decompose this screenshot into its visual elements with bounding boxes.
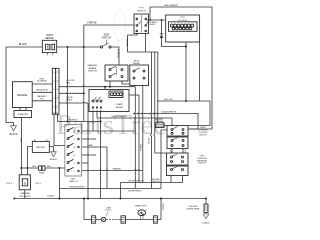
svg-text:BLACK: BLACK — [50, 158, 58, 161]
wire strip to relay y86.7 — [59, 85, 135, 88]
wire key switch y163 — [82, 162, 88, 164]
svg-text:WHITE: WHITE — [149, 24, 156, 26]
wire strip y93.3 — [59, 92, 84, 94]
svg-text:PURPLE: PURPLE — [87, 22, 97, 25]
node x150 y20 — [149, 19, 151, 21]
svg-text:PTO: PTO — [180, 17, 185, 19]
svg-text:MOW: MOW — [134, 60, 139, 62]
wire battery negative to ground — [49, 147, 53, 152]
svg-text:BROWN: BROWN — [125, 39, 127, 47]
wire parking brake bottom right — [122, 81, 130, 84]
wire key switch y139 — [82, 138, 96, 140]
wire orange y170.5 — [82, 169, 143, 172]
headlight — [135, 205, 147, 220]
battery — [32, 140, 49, 153]
wire bundle x154.8 — [154, 52, 167, 153]
svg-text:METER: METER — [45, 37, 54, 40]
wire black/white y113.5 — [133, 114, 198, 130]
svg-text:RED: RED — [47, 166, 52, 168]
pto switch — [134, 8, 149, 34]
node at x83.8 y47 — [83, 46, 85, 48]
wire purple top horizontal — [84, 24, 134, 26]
wire hour meter to seat switch — [57, 46, 101, 48]
wire key switch y131 — [82, 130, 136, 132]
inline connector box — [156, 123, 167, 128]
svg-text:BLACK/WHITE: BLACK/WHITE — [112, 115, 127, 118]
wire battery positive down — [27, 147, 32, 169]
parking brake switch — [88, 64, 128, 81]
svg-text:BLACK: BLACK — [202, 221, 210, 224]
svg-text:STARTER: STARTER — [20, 192, 30, 195]
svg-text:BLACK: BLACK — [10, 133, 18, 136]
node x27.4 y168 — [26, 167, 28, 169]
wire clutch bottom tap — [185, 42, 187, 101]
svg-text:YELLOW: YELLOW — [155, 121, 163, 123]
wire steering left bus x161 — [161, 130, 167, 189]
svg-text:SOLENOID: SOLENOID — [37, 81, 47, 83]
wire bundle x135.3 — [133, 87, 136, 189]
svg-text:SWITCH: SWITCH — [137, 10, 146, 12]
svg-text:SWITCH: SWITCH — [88, 71, 97, 73]
wire engine magneto kill — [32, 100, 52, 102]
wire key switch y147 + 1 AMP — [82, 146, 107, 148]
wire relay bottom pin x93 — [92, 110, 94, 131]
lamp row feed left — [84, 199, 92, 220]
wire strip bottom right pin — [56, 114, 58, 121]
svg-text:HEADLIGHT: HEADLIGHT — [135, 205, 147, 208]
svg-text:START: START — [116, 103, 124, 106]
seat switch S1 — [100, 34, 111, 49]
wire to light fuse — [96, 219, 102, 221]
svg-text:BROWN: BROWN — [147, 138, 149, 145]
ground right assembly — [202, 199, 210, 225]
svg-text:BROWN YELLOW: BROWN YELLOW — [129, 181, 144, 183]
node rail 14.4 — [13, 198, 15, 200]
wire lamp row right up to rail — [157, 199, 161, 220]
wire bundle x142.8 — [141, 86, 144, 183]
wire vertical x100.6 — [100, 110, 102, 198]
light coil lamp — [101, 207, 112, 221]
svg-text:RED: RED — [19, 138, 21, 143]
svg-text:COIL 1: COIL 1 — [35, 183, 41, 185]
node x100.6 y121.5 — [100, 121, 102, 123]
wire bundle x151.5 — [150, 52, 153, 189]
wire x120.5 down — [120, 183, 122, 199]
svg-text:RED: RED — [66, 82, 71, 84]
svg-text:RELAY: RELAY — [116, 106, 124, 109]
wire purple y121.5 — [57, 121, 100, 123]
wire to headlight — [126, 219, 154, 221]
svg-text:PTO: PTO — [139, 8, 144, 10]
wire pto switch bottom into bundle — [128, 33, 158, 52]
wire dashes to connector 2 — [106, 219, 121, 221]
svg-text:WHT: WHT — [184, 149, 186, 153]
svg-text:BLACK: BLACK — [47, 195, 55, 198]
wire strip y103 — [59, 101, 88, 104]
svg-text:SWITCH: SWITCH — [198, 163, 206, 165]
left rail wire — [6, 47, 14, 126]
connector 3 — [153, 216, 157, 223]
svg-text:(COIL): (COIL) — [106, 210, 112, 212]
node rail 59.4 — [58, 198, 60, 200]
svg-text:PARKING: PARKING — [88, 64, 98, 67]
svg-text:REGULATOR: REGULATOR — [36, 89, 48, 92]
svg-text:SWITCH: SWITCH — [199, 134, 207, 136]
svg-text:BRAKE: BRAKE — [89, 67, 97, 70]
right steering switch — [167, 126, 188, 149]
diode D1 — [160, 20, 186, 47]
wire red/green top — [150, 7, 212, 129]
wire x150 down to pto out — [149, 7, 151, 20]
wire vertical x88 — [87, 103, 89, 199]
svg-text:S: S — [24, 182, 26, 186]
connector strip J1 — [52, 68, 59, 114]
ground (left rail) — [10, 126, 18, 136]
hour meter HM1 — [42, 34, 56, 55]
key switch K1 — [65, 125, 82, 184]
svg-text:BLACK: BLACK — [162, 204, 165, 211]
label left steering switch — [197, 156, 208, 165]
wire seat switch to parking brake box — [111, 47, 119, 65]
node x161.5 y20 — [161, 19, 163, 21]
svg-text:BROWN WHITE: BROWN WHITE — [70, 187, 85, 189]
wire engine fuel solenoid — [32, 83, 52, 85]
svg-text:SWITCH: SWITCH — [102, 37, 112, 40]
node x59.4 y168 — [58, 167, 60, 169]
wire clutch right pin down — [199, 42, 201, 101]
node rail 120.5 — [120, 198, 122, 200]
svg-text:STARTER: STARTER — [18, 113, 28, 116]
svg-text:YELLOW: YELLOW — [152, 181, 160, 183]
wire vertical x107 — [106, 147, 108, 189]
starter box — [14, 108, 32, 118]
node x186 y46.5 — [185, 46, 187, 48]
svg-text:FUSE: FUSE — [39, 173, 45, 175]
node x67.5 y121.5 — [67, 121, 69, 123]
engine box — [13, 82, 33, 108]
svg-text:BLACK: BLACK — [19, 43, 28, 46]
svg-text:BLACK/WHITE: BLACK/WHITE — [162, 111, 177, 114]
svg-text:BLACK: BLACK — [66, 98, 73, 101]
node x84 y198.5 — [83, 198, 85, 200]
wires between steering boxes — [172, 149, 183, 154]
svg-text:L: L — [74, 171, 75, 173]
pto clutch — [166, 15, 200, 42]
svg-text:KILL: KILL — [40, 98, 44, 100]
ground (battery) — [50, 152, 58, 161]
connector 1 — [92, 216, 96, 223]
svg-text:YELLOW: YELLOW — [163, 99, 173, 101]
fuse F1 — [21, 166, 65, 175]
svg-text:RED: RED — [32, 166, 37, 168]
wire engine regulator — [32, 91, 52, 93]
node x105? y87 — [109, 86, 111, 88]
mow relay box — [130, 60, 149, 85]
label right steering switch — [198, 127, 208, 136]
wire vertical x59.4 — [58, 168, 60, 199]
wire left steering right pin down — [182, 176, 184, 183]
watermark tree ellipse — [114, 10, 126, 46]
wire relay bottom pin x97 — [96, 110, 98, 118]
svg-text:SWITCH: SWITCH — [69, 181, 78, 183]
wire bundle x139 — [137, 95, 140, 183]
node rail 205 — [205, 198, 207, 200]
starter solenoid — [6, 168, 41, 199]
left steering switch — [167, 153, 189, 176]
svg-text:(WHITE WIRE): (WHITE WIRE) — [187, 208, 200, 210]
wire strip bottom to key switch — [54, 114, 65, 145]
node x83.8 y93.3 — [83, 92, 85, 94]
wire brown/yellow y182.5 — [121, 182, 183, 184]
wire yellow y101 — [157, 101, 210, 126]
wire brown white y188.5 — [59, 188, 161, 190]
svg-text:BROWN WHITE: BROWN WHITE — [128, 191, 142, 193]
svg-text:RED/GREEN: RED/GREEN — [164, 5, 177, 7]
start relay — [89, 90, 129, 112]
wire relay right to bundle — [129, 94, 139, 96]
wire key switch y155 — [82, 154, 96, 156]
node rail 88 — [87, 198, 89, 200]
svg-text:PURPLE: PURPLE — [117, 49, 119, 58]
wire pto switch to clutch — [147, 19, 166, 21]
wire bundle x157.8 — [156, 52, 159, 123]
ground rail — [14, 198, 206, 200]
wire black/white y118 — [97, 118, 172, 126]
node x105 y87 — [104, 86, 106, 88]
wire parking brake bottom left — [109, 81, 111, 87]
svg-text:ENGINE: ENGINE — [17, 93, 27, 97]
node x21.4 y168 — [20, 167, 22, 169]
svg-text:SOLENOID: SOLENOID — [20, 196, 31, 198]
node at x67.5 y47 — [67, 46, 69, 48]
wire pto switch bottom right pin down — [145, 33, 147, 52]
svg-text:BATTERY: BATTERY — [36, 146, 46, 149]
svg-text:ORANGE: ORANGE — [112, 167, 121, 170]
wire relay coil feed — [104, 87, 106, 90]
node rail 163 — [160, 198, 162, 200]
svg-text:PURPLE: PURPLE — [69, 120, 78, 122]
wire steering bottom x171 — [170, 176, 172, 183]
connector 2 — [121, 216, 126, 223]
battery feed vertical x21.5 — [21, 118, 23, 169]
node x186 y101 — [185, 100, 187, 102]
wire purple vertical x83.8 — [83, 25, 85, 122]
wire black top-left horizontal — [6, 46, 42, 48]
svg-text:COIL 2: COIL 2 — [6, 183, 12, 185]
wire vertical x67.5 — [66, 47, 69, 122]
